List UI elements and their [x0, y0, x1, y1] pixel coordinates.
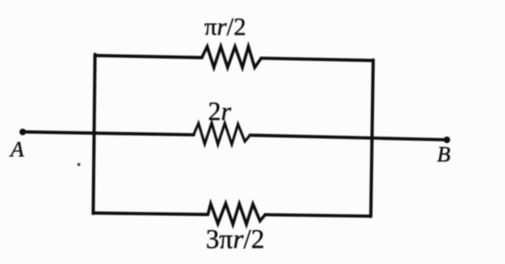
wire top-left horizontal: [95, 56, 202, 58]
stray ink speck: [77, 163, 80, 166]
wire right vertical: [371, 60, 373, 217]
svg-text:2r: 2r: [208, 97, 232, 126]
resistor R2 zigzag (2r): [194, 123, 250, 144]
svg-text:πr/2: πr/2: [204, 14, 246, 41]
resistor R1 zigzag (pi r / 2): [202, 47, 261, 68]
svg-text:3πr/2: 3πr/2: [206, 224, 265, 254]
wire middle-right horizontal (R2 to B): [250, 135, 447, 140]
wire top-right horizontal: [261, 58, 373, 60]
wire bottom-right horizontal: [265, 215, 370, 217]
node A terminal dot: [19, 129, 26, 136]
wire left vertical: [93, 54, 95, 213]
node B terminal dot: [444, 137, 451, 144]
svg-text:B: B: [437, 142, 450, 167]
wire bottom-left horizontal: [93, 213, 208, 215]
resistor R3 zigzag (3 pi r / 2): [208, 203, 265, 224]
wire middle-left horizontal (A to R2): [23, 132, 194, 135]
svg-text:A: A: [9, 137, 25, 162]
